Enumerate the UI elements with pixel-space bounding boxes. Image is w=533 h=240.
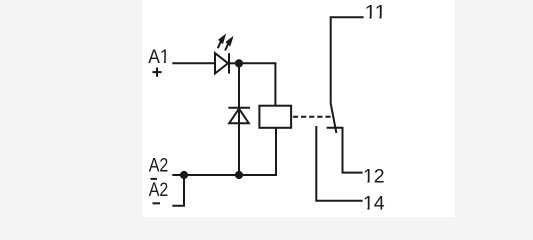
- svg-text:14: 14: [363, 193, 385, 214]
- wire A1 to LED: [172, 62, 215, 64]
- svg-text:11: 11: [365, 2, 387, 23]
- wire LED node down through diode to bottom rail: [238, 63, 240, 175]
- dashed mechanical link coil to contact: [293, 116, 331, 118]
- node junction LED/top rail: [235, 59, 243, 67]
- wire A2-bar branch: [172, 175, 184, 206]
- contact blade (changeover armature): [331, 104, 337, 134]
- svg-text:A2: A2: [149, 180, 169, 201]
- diode V1 (flyback): [228, 108, 250, 124]
- wire contact 14: [316, 126, 362, 201]
- node junction A2 branch: [180, 171, 188, 179]
- minus polarity mark: [153, 202, 161, 204]
- wire coil bottom / bottom rail A2: [172, 128, 276, 175]
- terminal label 14: [363, 193, 385, 214]
- relay coil K1: [259, 106, 291, 128]
- svg-text:12: 12: [363, 166, 385, 187]
- terminal label 12: [363, 166, 385, 187]
- overline of A2-bar: [151, 178, 158, 180]
- node junction diode bottom: [235, 171, 243, 179]
- wire terminal 11 to pivot: [331, 17, 364, 103]
- wire contact 12: [327, 128, 363, 173]
- wire top rail to coil top: [239, 63, 275, 105]
- LED D1: [215, 33, 235, 73]
- terminal label 11: [365, 2, 387, 23]
- terminal label A2: [149, 156, 169, 177]
- terminal label A2-bar: [149, 180, 169, 201]
- svg-text:A2: A2: [149, 156, 169, 177]
- terminal label A1: [148, 47, 170, 68]
- plus polarity mark: [152, 68, 161, 77]
- svg-text:A1: A1: [148, 47, 169, 68]
